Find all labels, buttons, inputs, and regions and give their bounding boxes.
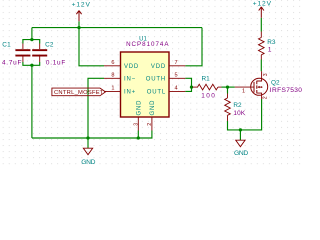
wire caps bottom bracket (23, 62, 40, 65)
svg-text:100: 100 (201, 93, 216, 100)
source link (257, 93, 262, 99)
pin 1 IN+ (104, 86, 136, 96)
node R1 left junction (190, 85, 193, 88)
svg-text:6: 6 (111, 60, 114, 66)
wire right GND stem (239, 130, 241, 140)
svg-text:GND: GND (81, 159, 95, 166)
svg-text:GND: GND (234, 150, 248, 157)
wire VDD pin7 to rail (185, 28, 202, 66)
capacitor C2 (32, 42, 66, 67)
power GND right symbol (236, 140, 245, 147)
svg-text:+12V: +12V (253, 1, 272, 8)
wire R1 to gate node (222, 86, 228, 88)
svg-text:3: 3 (263, 73, 269, 76)
gate pin stub (235, 86, 254, 88)
svg-text:R2: R2 (233, 102, 242, 109)
power GND left symbol (83, 148, 92, 155)
node caps top junction (30, 38, 33, 41)
wire IN- to ground (88, 78, 104, 138)
resistor R3 (259, 32, 276, 60)
svg-text:C2: C2 (45, 42, 54, 49)
svg-text:1: 1 (111, 86, 114, 92)
wire OUTL pin4 to gate node (185, 87, 191, 91)
svg-text:IN+: IN+ (124, 90, 136, 96)
svg-text:NCP81074A: NCP81074A (126, 41, 169, 48)
pin 8 IN- (104, 72, 136, 82)
drain link (257, 71, 262, 81)
svg-text:OUTL: OUTL (147, 90, 166, 96)
node right gnd junction (239, 128, 242, 131)
pin 7 VDD (151, 60, 185, 70)
svg-text:0.1uF: 0.1uF (46, 60, 66, 67)
wire R2 bottom to right gnd rail (228, 99, 262, 130)
svg-text:C1: C1 (2, 42, 11, 49)
wire left GND stem (87, 138, 89, 148)
wire gate node down to R2 (227, 87, 229, 93)
svg-text:1: 1 (242, 88, 245, 94)
wire top +12V rail (32, 27, 202, 29)
node caps bottom junction (30, 64, 33, 67)
svg-text:R3: R3 (267, 39, 276, 46)
node gnd rail junction pin3 (137, 136, 140, 139)
op-amp U1 (gate driver IC) (121, 36, 170, 117)
svg-text:GND: GND (136, 100, 142, 116)
pin 3 GND (133, 100, 142, 131)
wire caps top bracket (23, 40, 40, 44)
node +12V rail junction (77, 26, 80, 29)
wire rail down to caps top bracket (31, 28, 33, 40)
wire pin3 gnd riser (137, 131, 139, 139)
svg-text:R1: R1 (202, 75, 211, 82)
channel dashes (256, 81, 258, 85)
transistor Q2 (235, 71, 302, 99)
pin 4 OUTL (147, 86, 186, 96)
svg-text:7: 7 (175, 60, 178, 66)
wire gate node to Q2 gate (228, 86, 235, 88)
wire +12V right to R3 top (260, 18, 262, 32)
svg-text:OUTH: OUTH (146, 77, 166, 83)
power +12V left symbol (76, 11, 81, 22)
wire caps bottom down to gnd rail (31, 65, 33, 138)
svg-text:GND: GND (150, 100, 156, 116)
svg-text:3: 3 (133, 123, 139, 126)
capacitor C1 (2, 42, 30, 67)
resistor R1 (193, 75, 222, 99)
svg-text:VDD: VDD (151, 64, 166, 70)
pin 5 OUTH (146, 72, 186, 82)
svg-text:Q2: Q2 (271, 80, 280, 87)
svg-text:IRFS7530: IRFS7530 (270, 87, 302, 94)
svg-text:4.7uF: 4.7uF (2, 60, 22, 67)
svg-text:10K: 10K (233, 110, 246, 117)
svg-text:2: 2 (147, 123, 153, 126)
node gnd rail junction left (86, 136, 89, 139)
pin 2 GND (147, 100, 156, 131)
wire bottom-left ground rail (32, 131, 152, 139)
pin 6 VDD (104, 60, 139, 70)
label CNTRL_MOSFET (52, 88, 106, 96)
svg-text:1: 1 (268, 47, 272, 54)
resistor R2 (225, 94, 246, 122)
power +12V right symbol (259, 7, 264, 18)
svg-text:+12V: +12V (72, 2, 91, 9)
svg-text:2: 2 (263, 96, 269, 99)
node gate junction (226, 85, 229, 88)
svg-text:IN−: IN− (124, 77, 136, 83)
svg-text:VDD: VDD (124, 64, 139, 70)
wire OUTH pin5 to gate node (185, 78, 191, 87)
wire R3 bottom to Q2 drain (260, 60, 262, 72)
svg-text:5: 5 (175, 72, 178, 78)
svg-text:8: 8 (111, 72, 114, 78)
substrate arrow (259, 86, 262, 88)
svg-text:CNTRL_MOSFET: CNTRL_MOSFET (54, 90, 104, 96)
wire +12V stem lower part (78, 21, 80, 27)
gate bar (253, 82, 255, 93)
svg-text:4: 4 (175, 86, 178, 92)
wire +12V drop to VDD pin6 (79, 28, 104, 66)
